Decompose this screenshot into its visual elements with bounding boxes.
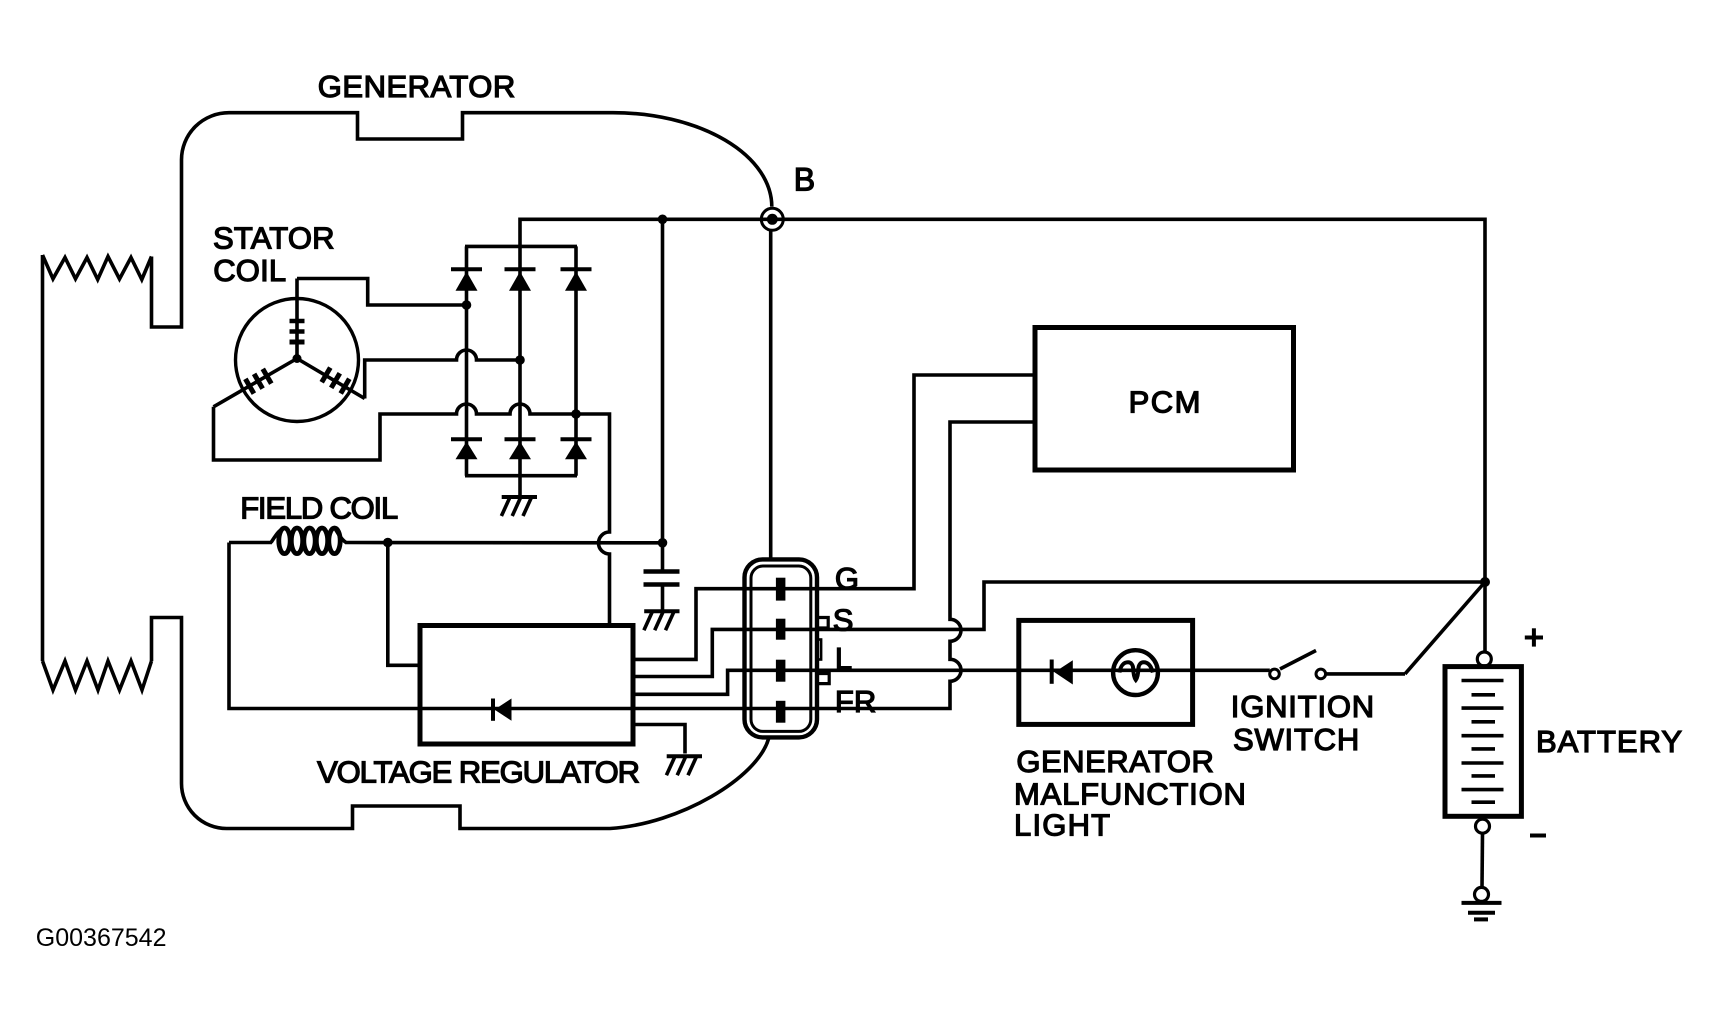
svg-text:LIGHT: LIGHT [1014,807,1111,842]
wire left brush vertical [41,255,45,661]
wire field coil left to regulator diode line and FR pin to PCM [229,422,1035,709]
diode D1 top-left [451,269,482,290]
ground terminal circle [1475,887,1489,901]
svg-text:SWITCH: SWITCH [1233,722,1360,757]
ground rectifier [501,497,537,516]
battery box [1445,667,1521,817]
wire stator right to rectifier middle column [365,350,520,399]
ground stub voltage regulator [633,725,685,754]
stator coil circle [236,299,359,422]
capacitor C1 [644,572,680,585]
wire node B to connector [769,231,773,561]
svg-text:PCM: PCM [1129,384,1202,419]
connector pin L [776,660,786,682]
diode D2 top-middle [505,269,536,290]
diode D3 top-right [561,269,592,290]
generator enclosure outline top [152,113,772,327]
voltage regulator box U1 [420,626,633,745]
junction dot stator bottom [571,409,581,419]
diode D8 in lamp box [1052,660,1073,685]
label GENERATOR MALFUNCTION LIGHT [1014,744,1247,842]
node B terminal circle [761,208,783,230]
connector pin G [776,578,786,601]
ignition switch blade [1280,651,1316,670]
svg-text:VOLTAGE REGULATOR: VOLTAGE REGULATOR [317,754,639,789]
wire battery negative to ground [1480,833,1484,887]
svg-text:S: S [833,602,854,637]
stator winding top [290,279,305,359]
svg-text:B: B [794,162,815,198]
svg-text:G00367542: G00367542 [36,924,167,952]
lamp box [1019,620,1193,724]
wire switch diagonal to junction [1405,582,1485,674]
svg-text:STATOR: STATOR [213,220,335,255]
ground capacitor [644,611,680,630]
wire regulator G output to PCM [633,375,1035,659]
wire rectifier to ground [518,476,522,497]
svg-text:MALFUNCTION: MALFUNCTION [1014,776,1247,811]
rectifier left column [465,246,469,475]
generator enclosure outline bottom [152,618,769,829]
connector latch tab upper [816,618,828,629]
connector latch tab lower [816,674,829,684]
connector C1 inner shell [751,566,811,731]
svg-text:COIL: COIL [213,253,286,288]
svg-text:L: L [835,641,852,676]
wire stator top to rectifier left column [297,279,467,306]
wire capacitor from bus [661,219,665,569]
stator winding right [297,359,365,399]
connector latch rail [816,640,821,660]
junction dot capacitor top [658,538,668,548]
label IGNITION SWITCH [1231,689,1375,757]
svg-text:BATTERY: BATTERY [1536,724,1683,759]
ignition switch left contact [1270,669,1280,679]
battery positive terminal [1477,652,1491,666]
wire switch to diagonal [1326,672,1405,676]
wire regulator S output to battery sense [633,582,1485,677]
svg-text:IGNITION: IGNITION [1231,689,1375,724]
svg-text:GENERATOR: GENERATOR [1016,744,1214,779]
wire field coil to capacitor junction [345,541,663,545]
junction dot stator top [462,300,472,310]
svg-text:FR: FR [835,684,876,719]
node B junction dot [767,214,778,225]
junction dot bus-capacitor [658,215,668,225]
stator winding left [214,359,298,407]
rectifier bottom rail [465,474,577,478]
wire junction to battery positive [1483,582,1487,652]
junction dot stator middle [515,355,525,365]
lamp L1 [1113,650,1158,695]
diode D7 inside regulator [493,699,512,721]
wire capacitor to ground [661,586,665,610]
connector C1 outer shell [745,559,818,737]
wire rectifier output to voltage regulator [576,414,610,626]
junction dot battery top [1480,577,1490,587]
svg-text:FIELD COIL: FIELD COIL [240,490,398,525]
PCM box U2 [1035,328,1294,471]
connector pin S [776,619,786,640]
rectifier right column [574,246,578,475]
rectifier middle column [518,246,522,475]
battery negative terminal [1476,819,1490,833]
resistor brush bottom-left [43,661,152,690]
svg-text:GENERATOR: GENERATOR [318,69,516,104]
wire regulator L output to lamp [633,670,1270,694]
ignition switch right contact [1316,669,1326,679]
inductor field coil [229,528,346,554]
wire field junction to regulator left [388,543,420,666]
resistor brush top-left [43,255,152,280]
diode D4 bottom-left [451,439,482,459]
wire stator left to rectifier right column [214,404,577,460]
diode D5 bottom-middle [505,439,536,459]
battery plates [1462,681,1504,803]
rectifier top rail [465,245,577,249]
label plus [1525,628,1543,646]
svg-text:G: G [835,561,859,596]
stator center junction dot [293,354,302,363]
label STATOR COIL [213,220,335,288]
ground battery [1462,903,1502,920]
diode D6 bottom-right [561,439,592,459]
label minus [1530,834,1546,838]
ground voltage regulator [666,756,702,775]
wire B bus: rectifier top to battery column [520,219,1485,582]
junction dot field coil right [383,538,393,548]
connector pin FR [776,701,786,723]
